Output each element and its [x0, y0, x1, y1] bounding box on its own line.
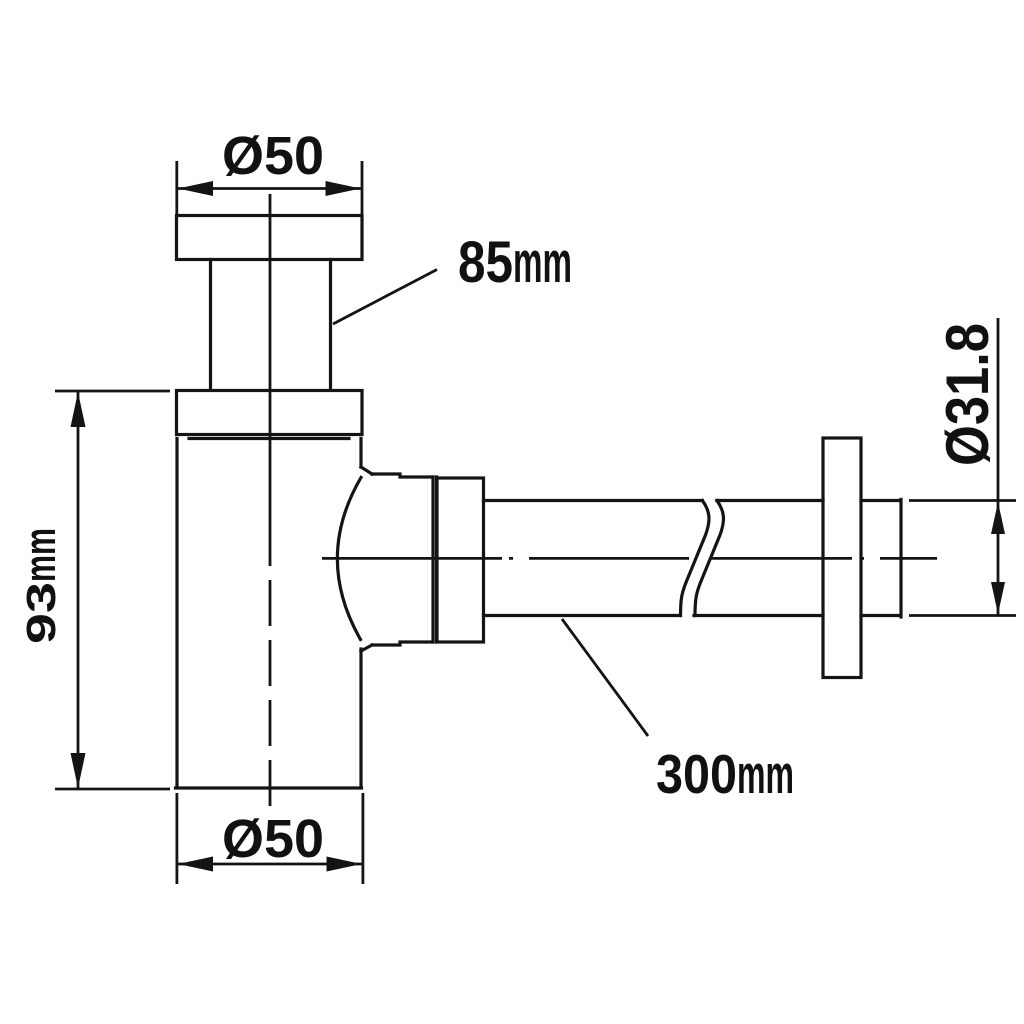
- dimension Ø50 top: left arrow: [178, 181, 213, 196]
- outlet pipe left section: [484, 501, 703, 616]
- dimension Ø50 bottom: right arrow: [327, 857, 362, 872]
- dimension Ø50 top: extension lines: [177, 161, 362, 215]
- dimension 93mm: bottom arrow: [71, 753, 86, 788]
- svg-text:mm: mm: [737, 743, 794, 805]
- outlet boss top and bottom edges: [372, 474, 433, 645]
- outlet nut: [437, 478, 484, 642]
- svg-text:93: 93: [18, 582, 64, 644]
- dimension 93mm: extension lines: [55, 391, 170, 789]
- svg-text:mm: mm: [16, 528, 65, 582]
- body top rim line: [189, 437, 349, 440]
- leader line for 300mm: [562, 619, 648, 736]
- inlet pipe walls: [211, 260, 331, 391]
- compression nut (upper): [177, 391, 363, 435]
- top flange of inlet pipe: [177, 216, 363, 260]
- dimension Ø50 bottom: dimension line: [177, 863, 363, 866]
- svg-text:300: 300: [656, 743, 737, 805]
- outlet boss chamfers: [361, 467, 372, 651]
- dimension Ø50 top: right arrow: [326, 181, 361, 196]
- vertical centerline of body: [269, 194, 272, 520]
- trap body outline: [176, 439, 362, 789]
- dimension Ø31.8: top arrow: [991, 502, 1005, 534]
- svg-text:85: 85: [458, 230, 513, 295]
- svg-text:Ø50: Ø50: [222, 809, 324, 869]
- svg-text:Ø31.8: Ø31.8: [934, 323, 1001, 466]
- pipe end beyond flange: [861, 500, 901, 618]
- label 93mm (rotated): [16, 528, 65, 644]
- dimension Ø31.8: extension lines: [909, 501, 1016, 616]
- outlet ring / washer: [433, 477, 437, 642]
- dimension Ø50 bottom: left arrow: [178, 857, 213, 872]
- dimension 93mm: top arrow: [71, 392, 86, 427]
- label Ø31.8 (rotated): [934, 323, 1001, 466]
- dimension Ø31.8: dimension line: [997, 318, 1000, 616]
- svg-text:mm: mm: [513, 230, 572, 295]
- leader line for 85mm: [333, 270, 437, 325]
- svg-text:Ø50: Ø50: [222, 126, 324, 186]
- horizontal centerline of outlet pipe: [322, 557, 937, 560]
- dimension Ø50 bottom: extension lines: [177, 793, 363, 884]
- dimension Ø31.8: bottom arrow: [991, 582, 1005, 614]
- pipe break curve right: [695, 501, 723, 616]
- pipe break curve left: [681, 501, 709, 616]
- dimension 93mm: dimension line: [77, 391, 80, 789]
- outlet pipe right section: [694, 501, 823, 616]
- body bulge arc at outlet: [337, 478, 361, 640]
- dimension Ø50 top: dimension line: [177, 187, 362, 190]
- wall flange: [823, 438, 861, 678]
